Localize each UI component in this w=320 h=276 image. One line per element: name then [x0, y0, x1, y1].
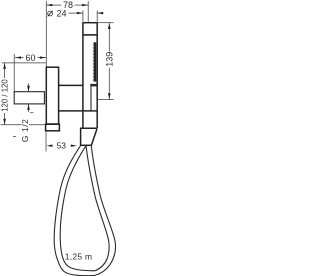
dimension diameter 24 label — [48, 8, 67, 18]
shower hose left strand inner edge — [60, 145, 95, 270]
wall outlet box below plate — [46, 124, 60, 131]
holder arm bottom edge and handle bottom — [59, 110, 98, 112]
svg-text:1,25 m: 1,25 m — [65, 252, 93, 262]
dimension 24 arrow right outside — [97, 12, 103, 14]
holder arm top edge — [59, 84, 83, 86]
label hose length 1,25 m — [65, 252, 93, 262]
svg-text:60: 60 — [26, 53, 36, 63]
svg-text:G 1/2: G 1/2 — [20, 119, 30, 142]
svg-text:24: 24 — [57, 8, 67, 18]
handle grip flange — [90, 84, 97, 87]
dimension 60 extension line left (bar left edge up) — [13, 54, 15, 92]
dimension 139 extension line bottom — [98, 99, 114, 101]
svg-text:53: 53 — [57, 141, 67, 151]
shower hose right strand outer edge — [91, 145, 115, 275]
shower hose left strand outer edge — [54, 145, 94, 275]
hose nut — [80, 128, 97, 145]
leader arrow down at bar top — [27, 84, 30, 92]
svg-text:120 / 120: 120 / 120 — [0, 79, 9, 112]
wall supply bar (rear connection) — [14, 92, 44, 104]
svg-text:139: 139 — [104, 52, 114, 67]
dimension 78 extension line left (x=45) — [45, 1, 47, 67]
node handle centerline tick — [87, 1, 89, 22]
dimension 120/120 extension line bottom — [1, 124, 47, 126]
dimension 24 extension lines onto handle — [83, 11, 97, 22]
leader arrow up at bar bottom — [27, 104, 30, 112]
handle grip hatch strip — [93, 42, 96, 82]
dimension 78 line — [46, 0, 88, 10]
dimension 139 extension line top — [98, 22, 114, 24]
hose connection tube below handle — [83, 111, 97, 128]
wall plate side view — [46, 67, 58, 124]
label G 1/2 — [13, 113, 33, 142]
dimension 120/120 line with arrows — [0, 63, 9, 125]
dimension 139 line with arrows — [104, 23, 114, 100]
dimension 120/120 extension line top — [2, 62, 47, 64]
shower hose right strand inner edge — [86, 145, 109, 270]
hand shower handle body — [83, 22, 97, 111]
dimension 60 line — [15, 53, 46, 63]
dimension 53 leader line — [45, 131, 47, 152]
dimension 53 arrows and label — [47, 141, 77, 151]
dimension 24 arrow left — [69, 12, 83, 14]
